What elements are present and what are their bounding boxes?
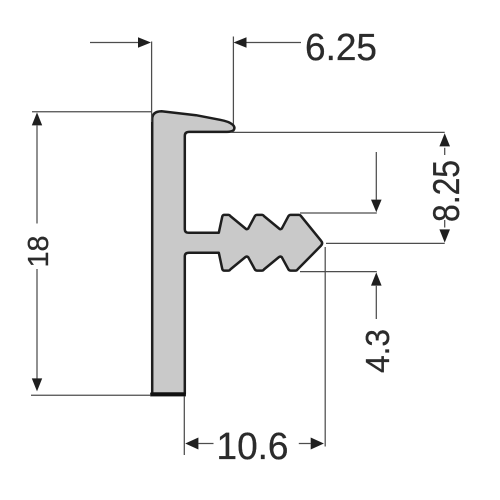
dimension 4.3: upper leader line [375,152,377,200]
dimension 4.3: extension line at bottom barb crest [300,271,377,273]
dimension 10.6: right extension line from barb tip [324,247,326,447]
dimension 8.25: dimension line upper stub [444,148,446,155]
dimension 4.3: lower leader line [375,286,377,319]
dimension 18: up-pointing arrowhead [32,112,42,125]
dimension 4.3: up-pointing arrowhead [371,272,382,285]
dimension 18: bottom extension line [31,394,150,396]
dimension 8.25: bottom extension line from barb tip [326,242,445,244]
dimension 6.25: left-pointing arrowhead [234,37,247,48]
dimension 18: down-pointing arrowhead [32,378,42,391]
dimension 18: dimension line lower part [36,269,38,379]
svg-text:8.25: 8.25 [426,160,467,222]
dimension 18: top extension line [32,111,151,113]
dimension 8.25: dimension line lower stub [444,220,446,228]
dimension 10.6: left-pointing arrowhead [185,438,198,450]
svg-text:6.25: 6.25 [305,27,377,69]
svg-text:18: 18 [23,236,55,268]
dimension 4.3: down-pointing arrowhead [371,200,382,213]
dimension 8.25: down-pointing arrowhead [439,229,450,242]
dimension 6.25: right extension line [232,37,234,125]
dimension 10.6: dimension line right stub [299,443,311,445]
dimension 18: dimension line upper part [36,126,38,224]
profile cross-section body (vertical leg, top flange with lip, barbed anchor arm) [152,111,322,393]
dimension 6.25: right-pointing arrowhead [138,37,151,48]
dimension 6.25: left leader line [90,42,139,44]
dimension 10.6: dimension line left stub [198,443,213,445]
thick black base edge of the leg [150,393,186,397]
dimension 10.6: right-pointing arrowhead [311,438,324,450]
svg-text:10.6: 10.6 [217,426,289,468]
dimension 10.6: left extension line from leg face [183,397,185,456]
dimension 8.25: top extension line from flange lip [231,131,445,133]
dimension 6.25: right leader line [247,42,302,44]
dimension 6.25: left extension line [151,42,153,123]
dimension 8.25: up-pointing arrowhead [439,133,450,146]
dimension 4.3: extension line at top barb crest [300,212,377,214]
svg-text:4.3: 4.3 [359,329,396,373]
